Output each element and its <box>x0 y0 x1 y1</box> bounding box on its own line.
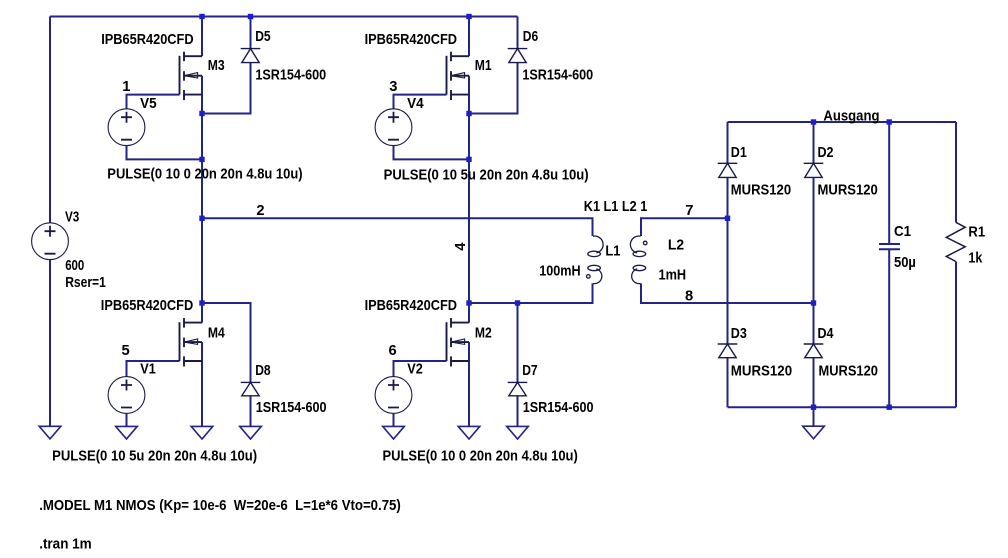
svg-text:C1: C1 <box>894 224 911 240</box>
ground M2 <box>458 426 480 439</box>
capacitor C1 <box>879 244 900 249</box>
diode D8 <box>241 382 261 395</box>
wire M4 drain node to D8 <box>202 303 251 382</box>
svg-text:PULSE(0 10 0 20n 20n 4.8u 10u): PULSE(0 10 0 20n 20n 4.8u 10u) <box>107 167 302 183</box>
node junction D4 / bottom rail <box>811 405 816 410</box>
svg-text:600: 600 <box>65 258 84 274</box>
svg-text:5: 5 <box>122 343 130 359</box>
svg-text:Rser=1: Rser=1 <box>65 275 106 291</box>
wire D5 anode to M3 source node <box>202 63 251 114</box>
transistor M3 <box>180 52 203 100</box>
svg-text:IPB65R420CFD: IPB65R420CFD <box>101 298 193 314</box>
wire top rail <box>50 16 518 18</box>
node junction M1 drain / top rail <box>466 14 471 19</box>
voltage source V1 <box>108 377 145 414</box>
ground V1 <box>116 426 138 439</box>
node junction D7 tap <box>515 300 520 305</box>
svg-text:MURS120: MURS120 <box>731 364 792 380</box>
svg-text:IPB65R420CFD: IPB65R420CFD <box>101 32 193 48</box>
ground D8 <box>240 426 262 439</box>
svg-text:1SR154-600: 1SR154-600 <box>522 67 593 83</box>
inductor L2 transformer secondary <box>630 236 647 284</box>
wire D7 anode to ground <box>517 396 519 427</box>
transistor M4 <box>180 318 203 366</box>
voltage source V3 <box>32 223 69 260</box>
ground V2 <box>383 426 405 439</box>
svg-text:D1: D1 <box>731 145 747 161</box>
svg-text:V1: V1 <box>140 362 156 378</box>
svg-text:1SR154-600: 1SR154-600 <box>255 67 326 83</box>
svg-text:D4: D4 <box>818 326 835 342</box>
node junction D2 / output rail <box>811 119 816 124</box>
svg-text:1SR154-600: 1SR154-600 <box>256 400 327 416</box>
wire C1 top lead <box>888 122 890 244</box>
diode D3 <box>718 344 738 358</box>
wire node 6 V2 to M2 gate <box>394 361 447 377</box>
wire M2 drain node to D7 <box>469 303 518 382</box>
svg-text:PULSE(0 10 5u 20n 20n 4.8u 10u: PULSE(0 10 5u 20n 20n 4.8u 10u) <box>384 167 589 183</box>
svg-text:L2: L2 <box>668 238 684 254</box>
diode D4 <box>804 344 824 358</box>
wire node 3 V4 to M1 gate <box>394 95 447 110</box>
wire D2 anode to D4 cathode <box>813 177 815 344</box>
svg-text:3: 3 <box>389 79 397 95</box>
wire L2 bottom to node 8 <box>641 283 814 303</box>
resistor R1 <box>946 222 965 261</box>
svg-text:100mH: 100mH <box>539 263 580 279</box>
wire D5 cathode lead <box>250 17 252 49</box>
svg-text:PULSE(0 10 0 20n 20n 4.8u 10u): PULSE(0 10 0 20n 20n 4.8u 10u) <box>383 448 578 464</box>
wire R1 top lead <box>955 122 957 222</box>
node junction C1 / bottom rail <box>887 405 892 410</box>
svg-text:.tran 1m: .tran 1m <box>39 536 91 552</box>
node junction M4 drain / D8 branch <box>199 300 204 305</box>
wire M3 source column to M4 drain <box>201 76 203 323</box>
wire node 5 V1 to M4 gate <box>127 361 180 377</box>
svg-text:V3: V3 <box>65 210 79 226</box>
svg-text:4: 4 <box>453 242 469 251</box>
wire M1 drain lead <box>468 17 470 57</box>
wire V2 minus to ground <box>393 413 395 426</box>
svg-text:V2: V2 <box>407 362 423 378</box>
transistor M1 <box>447 52 470 100</box>
node junction V4 return <box>466 157 471 162</box>
wire R1 bottom lead <box>955 262 957 408</box>
svg-text:MURS120: MURS120 <box>819 364 878 380</box>
wire D6 anode to M1 source node <box>469 63 518 114</box>
wire node 2 to L1 top <box>202 218 593 236</box>
wire D3 anode to bottom rail <box>727 358 729 408</box>
wire M4 source to ground <box>201 342 203 426</box>
diode D6 <box>508 49 528 63</box>
svg-text:M3: M3 <box>208 58 225 74</box>
node junction M3 source / D5 <box>199 111 204 116</box>
svg-text:D3: D3 <box>731 326 747 342</box>
svg-text:1k: 1k <box>968 251 983 267</box>
wire D8 anode to ground <box>250 396 252 427</box>
ground V3 <box>39 426 61 439</box>
svg-text:50µ: 50µ <box>894 255 916 271</box>
svg-text:MURS120: MURS120 <box>731 183 791 199</box>
svg-text:PULSE(0 10 5u 20n 20n 4.8u 10u: PULSE(0 10 5u 20n 20n 4.8u 10u) <box>52 448 257 464</box>
diode D2 <box>804 163 824 177</box>
wire L1 bottom to node 4 <box>469 283 593 303</box>
node junction M3 drain / top rail <box>199 14 204 19</box>
node 2 junction <box>199 216 204 221</box>
svg-text:7: 7 <box>685 203 693 219</box>
wire M2 source to ground <box>468 342 470 426</box>
svg-text:6: 6 <box>389 343 397 359</box>
wire V5 minus to column <box>127 146 203 160</box>
ground bridge <box>803 426 825 439</box>
wire D1 anode to D3 cathode <box>727 177 729 344</box>
svg-text:MURS120: MURS120 <box>818 183 878 199</box>
node junction M1 source / D6 <box>466 111 471 116</box>
node 4 junction M2 drain <box>466 300 471 305</box>
node junction V5 return <box>199 157 204 162</box>
svg-text:D5: D5 <box>255 29 270 45</box>
transistor M2 <box>447 318 470 366</box>
svg-text:1SR154-600: 1SR154-600 <box>523 400 594 416</box>
node junction C1 / output rail <box>887 119 892 124</box>
node 7 junction <box>725 216 730 221</box>
svg-text:Ausgang: Ausgang <box>823 108 879 124</box>
diode D1 <box>718 163 738 177</box>
wire V4 minus to column <box>394 146 470 160</box>
svg-text:D7: D7 <box>522 363 537 379</box>
voltage source V4 <box>375 109 412 146</box>
svg-text:V5: V5 <box>140 96 157 112</box>
svg-text:2: 2 <box>256 203 264 219</box>
node 8 junction <box>811 300 816 305</box>
wire output bottom rail <box>728 406 957 408</box>
svg-text:8: 8 <box>685 289 693 305</box>
wire left rail upper <box>49 17 51 223</box>
node junction D5 / top rail <box>248 14 253 19</box>
wire M3 drain lead <box>201 17 203 57</box>
wire V1 minus to ground <box>126 413 128 426</box>
voltage source V2 <box>375 377 412 414</box>
voltage source V5 <box>108 109 145 146</box>
wire output top rail <box>728 121 957 123</box>
svg-text:D6: D6 <box>523 29 538 45</box>
svg-text:1: 1 <box>122 79 130 95</box>
wire L2 top to node 7 <box>641 218 728 236</box>
diode D5 <box>241 49 261 63</box>
wire D2 cathode to output rail <box>813 122 815 163</box>
svg-text:M2: M2 <box>475 325 492 341</box>
diode D7 <box>508 382 528 395</box>
wire D6 cathode lead <box>517 17 519 49</box>
wire M1 source column to M2 drain <box>468 76 470 323</box>
inductor L1 transformer primary <box>587 236 604 284</box>
svg-text:.MODEL M1 NMOS (Kp= 10e-6 W=2: .MODEL M1 NMOS (Kp= 10e-6 W=20e-6 L=1e*6… <box>39 498 401 514</box>
ground M4 <box>191 426 213 439</box>
svg-text:M1: M1 <box>475 58 492 74</box>
svg-text:K1 L1 L2 1: K1 L1 L2 1 <box>584 199 648 215</box>
svg-text:IPB65R420CFD: IPB65R420CFD <box>365 298 457 314</box>
wire node 1 V5 to M3 gate <box>127 95 180 110</box>
svg-text:R1: R1 <box>968 225 985 241</box>
wire D4 anode to bottom rail <box>813 358 815 408</box>
svg-text:V4: V4 <box>407 96 424 112</box>
svg-text:L1: L1 <box>605 243 620 259</box>
wire C1 bottom lead <box>888 249 890 407</box>
svg-text:M4: M4 <box>208 325 226 341</box>
wire bridge ground stem <box>813 407 815 426</box>
svg-text:IPB65R420CFD: IPB65R420CFD <box>365 32 457 48</box>
svg-text:D2: D2 <box>818 145 834 161</box>
ground D7 <box>507 426 529 439</box>
wire D1 cathode to output rail <box>727 122 729 163</box>
svg-text:D8: D8 <box>255 363 270 379</box>
wire left rail lower V3 to ground <box>49 260 51 427</box>
svg-text:1mH: 1mH <box>659 267 687 283</box>
